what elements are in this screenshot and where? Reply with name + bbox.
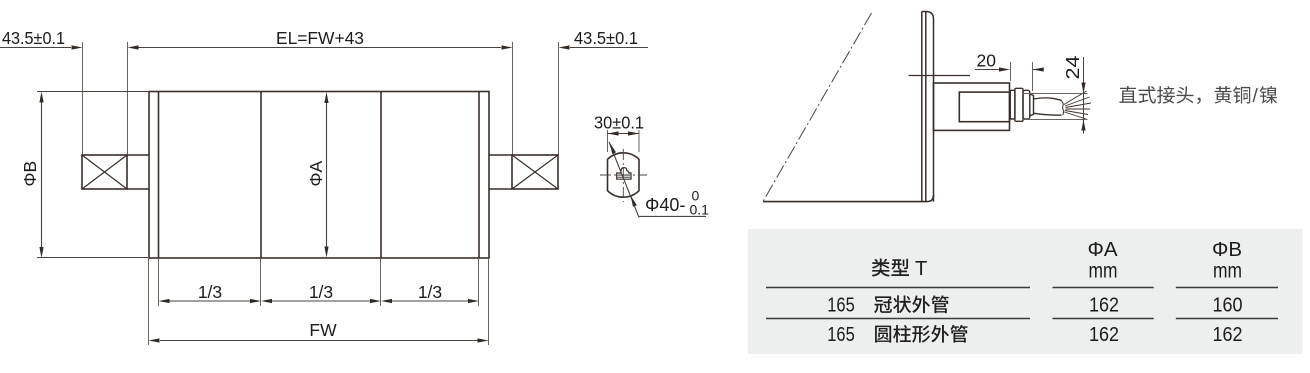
row2 [827,323,1242,346]
frame plate [922,12,934,202]
svg-text:43.5±0.1: 43.5±0.1 [2,28,65,48]
dimension PhiB [20,92,148,259]
cable [1034,98,1064,115]
right shaft [489,155,512,189]
left shaft [127,155,149,189]
svg-text:162: 162 [1089,294,1119,317]
center key detail [617,168,631,180]
svg-text:EL=FW+43: EL=FW+43 [276,28,364,48]
svg-text:0.1: 0.1 [690,202,710,218]
svg-text:Φ40-: Φ40- [645,195,685,215]
header 类型 T [872,258,927,280]
dimension 20 [975,51,1044,92]
left bearing block [82,155,127,189]
label Phi40 tolerance [645,188,709,218]
frayed wires [1064,91,1091,119]
svg-text:30±0.1: 30±0.1 [594,113,644,133]
table rule under row1 [766,318,1278,320]
svg-text:ΦA: ΦA [1087,238,1117,261]
centre tick [909,75,971,77]
dimension 1/3 last [381,282,479,303]
extension lines bottom dims [149,258,489,345]
roller tube body [149,92,489,259]
svg-text:162: 162 [1213,323,1243,346]
dimension 43.5±0.1 right [559,28,649,50]
dimension EL=FW+43 [128,28,513,50]
roller tube weld seam left [260,92,262,259]
header PhiB mm [1212,238,1242,283]
roller tube weld seam right [380,92,382,259]
annotation: straight connector, brass/nickel [1119,86,1277,107]
svg-text:ΦB: ΦB [20,161,40,187]
svg-text:20: 20 [977,51,997,71]
svg-text:43.5±0.1: 43.5±0.1 [574,28,638,48]
svg-text:T: T [915,258,927,280]
table background [748,229,1303,354]
extension lines top dims [83,42,559,155]
cable gland rings [1010,88,1033,121]
table rule under header [766,287,1278,289]
svg-text:1/3: 1/3 [198,282,222,302]
right drawing: conveyor frame with connector [763,12,1091,202]
svg-text:FW: FW [309,320,337,340]
dimension 43.5±0.1 left [0,28,83,50]
svg-text:165: 165 [827,294,855,317]
svg-text:160: 160 [1213,294,1243,317]
shaft flat circle [608,153,640,197]
svg-text:165: 165 [827,323,855,346]
svg-text:/: / [1253,86,1259,107]
dimension 30±0.1 [594,113,644,153]
frame break chain line [763,13,872,202]
svg-text:ΦA: ΦA [306,161,326,187]
dimension PhiA [306,92,329,258]
svg-text:mm: mm [1089,260,1118,283]
svg-text:ΦB: ΦB [1212,238,1242,261]
svg-text:24: 24 [1063,56,1083,80]
header PhiA mm [1087,238,1117,283]
dimension 1/3 middle [261,282,381,303]
connector housing [934,83,1010,130]
row1 [827,294,1242,317]
dimension 1/3 first [159,282,262,303]
svg-text:162: 162 [1089,323,1119,346]
svg-text:1/3: 1/3 [418,282,442,302]
dimension FW [149,320,489,343]
right bearing block [512,155,558,189]
left drawing: motorized roller side view [0,28,648,345]
svg-text:mm: mm [1213,260,1242,283]
frame bottom edge [763,195,934,202]
spec table [748,229,1303,354]
dimension 24 [1023,56,1088,134]
detail view shaft cross-section [594,113,709,218]
leader Phi40 [608,142,706,217]
svg-text:1/3: 1/3 [309,282,333,302]
centerlines [600,149,647,202]
